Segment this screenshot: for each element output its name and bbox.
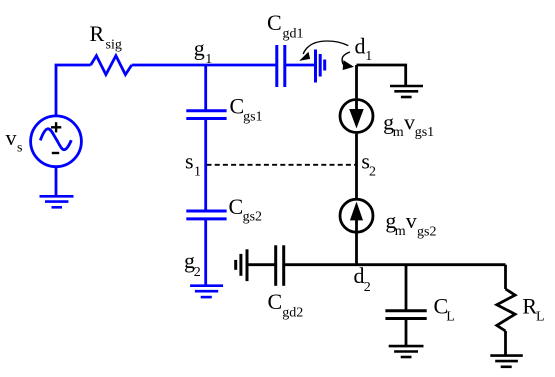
svg-text:s: s (17, 141, 22, 156)
svg-text:1: 1 (194, 165, 201, 180)
svg-text:v: v (406, 208, 417, 233)
svg-text:1: 1 (365, 49, 372, 64)
svg-text:L: L (446, 310, 455, 325)
svg-text:g: g (194, 36, 205, 61)
svg-text:s: s (185, 149, 194, 174)
svg-text:C: C (230, 94, 245, 119)
svg-text:gs2: gs2 (417, 225, 436, 240)
svg-text:C: C (267, 10, 282, 35)
svg-text:R: R (90, 21, 105, 46)
svg-text:C: C (229, 194, 244, 219)
svg-text:d: d (355, 33, 366, 58)
svg-text:m: m (395, 224, 406, 239)
svg-text:L: L (536, 310, 545, 325)
svg-text:m: m (393, 125, 404, 140)
svg-text:gd1: gd1 (283, 26, 304, 41)
svg-text:sig: sig (106, 37, 122, 52)
svg-text:2: 2 (369, 165, 376, 180)
svg-text:1: 1 (205, 52, 212, 67)
svg-text:2: 2 (194, 265, 201, 280)
svg-text:v: v (404, 110, 415, 135)
svg-text:gs2: gs2 (243, 209, 262, 224)
svg-text:v: v (6, 125, 17, 150)
svg-text:2: 2 (364, 280, 371, 295)
svg-text:gs1: gs1 (243, 109, 262, 124)
svg-text:gs1: gs1 (415, 125, 434, 140)
svg-text:C: C (268, 289, 283, 314)
svg-text:gd2: gd2 (282, 305, 303, 320)
